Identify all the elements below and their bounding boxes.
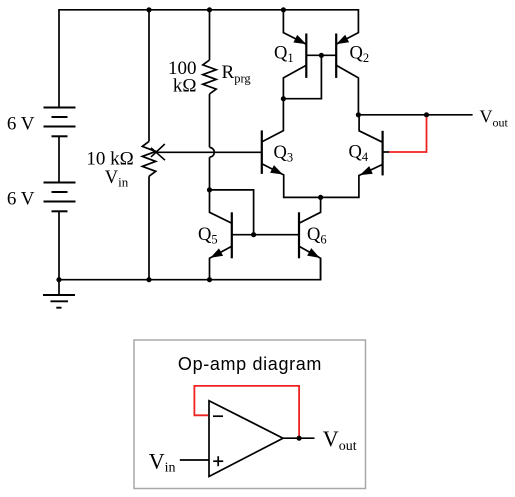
wire Vin input: [180, 459, 209, 461]
svg-text:Q1: Q1: [274, 44, 294, 66]
svg-text:6 V: 6 V: [7, 189, 35, 210]
pot wiper arrow: [151, 144, 165, 160]
wire Q3/Q4 emitter tie line: [262, 164, 383, 198]
transistor Q2: [336, 34, 348, 78]
svg-text:Vin: Vin: [105, 168, 129, 190]
wire Q1-Q2 base line: [306, 54, 336, 56]
wire wiper to Q3 base: [156, 151, 262, 153]
node top rail to Q1: [281, 7, 286, 12]
op-amp box frame: [134, 340, 366, 489]
svg-text:Q3: Q3: [274, 143, 294, 165]
svg-text:Q2: Q2: [350, 44, 370, 66]
transistor Q6: [299, 197, 321, 279]
wire red feedback (top schematic): [389, 117, 427, 152]
wire battery bottom to ground: [58, 211, 60, 295]
svg-text:Vin: Vin: [149, 448, 176, 475]
node top rail to Rprg: [207, 7, 212, 12]
wire output: [283, 437, 315, 439]
node top rail to pot: [146, 7, 151, 12]
resistor Rprg 100k zigzag: [203, 60, 216, 94]
node Q1 collector junction: [281, 96, 286, 101]
wire Rprg bottom above hop: [209, 94, 211, 147]
node Vout left: [356, 112, 361, 117]
wire Vout line: [358, 114, 472, 116]
wire Q4 base stub: [383, 151, 390, 153]
wire Q5-Q6 base line: [232, 234, 299, 236]
svg-text:Q4: Q4: [349, 143, 369, 165]
node Vout feedback tap: [424, 112, 429, 117]
op-amp U1 triangle: [209, 401, 283, 477]
node bottom-left junction: [56, 277, 61, 282]
wire Rprg column top: [209, 10, 211, 60]
svg-text:Q5: Q5: [198, 225, 218, 247]
wire bottom rail with Q6 emitter rise: [59, 258, 321, 279]
svg-text:Q6: Q6: [307, 225, 327, 247]
wire pot column top: [148, 10, 150, 142]
wire red feedback (op-amp): [194, 386, 299, 436]
node tail junction: [318, 195, 323, 200]
svg-text:kΩ: kΩ: [173, 75, 197, 96]
wire Q5 diode connection: [210, 190, 254, 235]
node output junction: [297, 436, 302, 441]
wire Q2 collector down to Vout node: [336, 65, 358, 115]
node Q5/Q6 base tie: [251, 232, 256, 237]
wire Q4 collector up: [359, 115, 383, 143]
node pot bottom rail: [146, 277, 151, 282]
svg-text:Rprg: Rprg: [222, 62, 252, 86]
battery B2 (6 V): [44, 183, 76, 212]
svg-text:10 kΩ: 10 kΩ: [86, 148, 133, 169]
wire between batteries: [58, 136, 60, 182]
node mirror base tie: [319, 53, 324, 58]
battery B1 (6 V): [44, 108, 76, 137]
wire Q1 collector chain to Q3 collector: [262, 65, 307, 142]
wire hop arc over wiper: [210, 148, 215, 158]
ground: [43, 295, 75, 308]
potentiometer 10 kOhm zigzag: [142, 141, 155, 176]
transistor Q1: [294, 34, 306, 78]
node Q5 collector / Rprg: [207, 187, 212, 192]
svg-text:Vout: Vout: [480, 106, 509, 129]
transistor Q5: [210, 157, 232, 279]
svg-text:6 V: 6 V: [7, 114, 35, 135]
transistor Q3: [262, 130, 282, 174]
plus input sign: [213, 460, 223, 462]
minus input sign: [213, 415, 223, 417]
svg-text:Vout: Vout: [323, 426, 357, 454]
svg-text:Op-amp diagram: Op-amp diagram: [178, 354, 322, 374]
wire mirror tie: [283, 55, 321, 98]
wire pot column bottom: [148, 176, 150, 279]
transistor Q4: [361, 131, 383, 176]
wire top rail with battery drop and Q2 emitter drop: [59, 10, 358, 108]
node Q5 emitter rail: [207, 277, 212, 282]
wire Q1 emitter drop: [283, 10, 306, 44]
